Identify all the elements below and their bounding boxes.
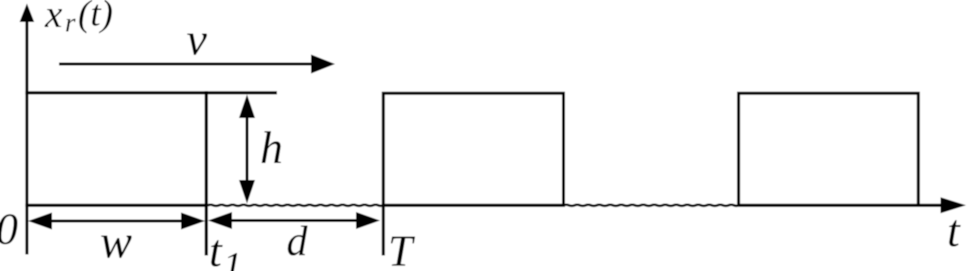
t-axis wavy segment 1 (208, 205, 383, 206)
label t1 (209, 225, 242, 271)
pulse 2 (383, 93, 563, 255)
svg-text:1: 1 (223, 245, 242, 271)
pulse 1 top line (25, 91, 277, 94)
svg-text:t: t (947, 205, 961, 256)
h arrow (double-headed vertical) (239, 95, 255, 204)
svg-text:T: T (388, 227, 416, 271)
svg-text:t: t (209, 225, 223, 271)
w arrow (double-headed horizontal) (28, 213, 205, 230)
t-axis (25, 197, 966, 213)
svg-text:x: x (44, 0, 63, 36)
y-axis label x_r(t) (44, 0, 113, 38)
t-axis wavy segment 2 (564, 205, 739, 206)
svg-text:w: w (100, 216, 132, 269)
svg-text:h: h (260, 122, 283, 173)
d arrow (double-headed horizontal) (208, 212, 380, 229)
svg-text:d: d (287, 219, 309, 265)
y-axis (20, 4, 35, 255)
svg-text:r: r (65, 8, 76, 38)
pulse 3 (739, 93, 919, 205)
svg-text:v: v (187, 14, 208, 65)
svg-text:0: 0 (0, 205, 18, 254)
v arrow (59, 55, 335, 74)
svg-text:(t): (t) (78, 0, 113, 35)
pulse 1 falling edge / t1 line (205, 91, 208, 256)
